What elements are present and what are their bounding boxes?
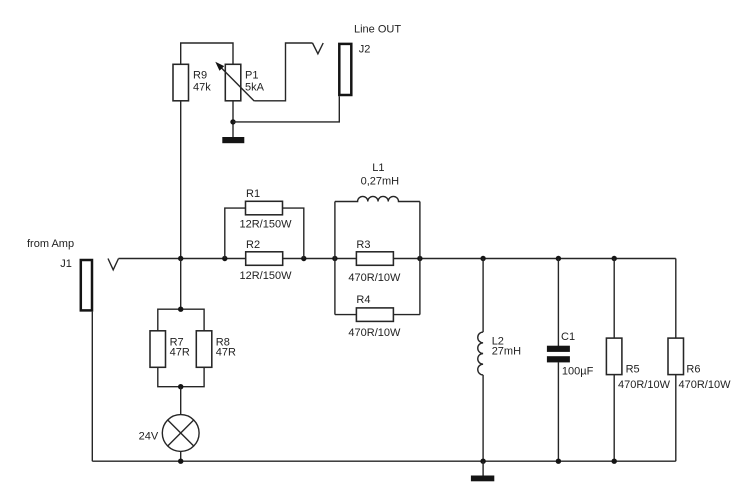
wire: R5 bottom lead — [613, 375, 615, 462]
ground (top) — [222, 137, 244, 143]
wire: C1 bottom lead — [557, 362, 559, 461]
value 47k — [193, 82, 211, 94]
wire: R9 bottom to output rail — [180, 101, 182, 259]
wire: J2 pin to ground node — [233, 96, 339, 122]
wire: R6 top lead — [675, 259, 677, 339]
svg-text:470R/10W: 470R/10W — [618, 379, 671, 391]
value 100µF — [562, 366, 594, 378]
junction: C1 / ground rail — [556, 459, 561, 464]
wire: R4 stub right — [393, 314, 420, 316]
value 12R/150W (R1) — [240, 219, 293, 231]
label Line OUT — [354, 23, 401, 35]
wire: R9/P1 top connection — [181, 43, 233, 65]
svg-text:12R/150W: 12R/150W — [240, 270, 293, 282]
label R5 — [626, 364, 640, 376]
label R8 — [216, 336, 230, 348]
net flag V (wiper) — [313, 43, 324, 54]
wire: R7/R8 bottom bus — [158, 367, 204, 386]
wire: main output rail — [119, 258, 676, 260]
svg-text:R9: R9 — [193, 70, 207, 82]
capacitor C1 — [547, 346, 570, 363]
svg-text:J2: J2 — [359, 43, 371, 55]
junction: R7/R8 bottom — [178, 384, 183, 389]
svg-text:470R/10W: 470R/10W — [679, 379, 732, 391]
wire: P1 wiper lead — [254, 43, 312, 101]
wire: R5 top lead — [613, 259, 615, 339]
svg-text:C1: C1 — [561, 331, 575, 343]
svg-text:47k: 47k — [193, 82, 211, 94]
wire: R1 branch left — [225, 208, 246, 258]
junction: lamp / ground rail — [178, 459, 183, 464]
wire: R7/R8 top bus — [158, 309, 204, 331]
ground (bottom) — [471, 461, 494, 481]
lamp 24V — [162, 415, 199, 462]
resistor R5 — [606, 338, 622, 375]
junction: rail / C1 top — [556, 256, 561, 261]
value 5kA — [245, 82, 265, 94]
label R1 — [246, 188, 260, 200]
junction: rail / R1-R2 right — [301, 256, 306, 261]
wire: bottom ground rail — [92, 460, 676, 462]
svg-text:100µF: 100µF — [562, 366, 594, 378]
potentiometer P1 — [215, 62, 254, 101]
label R2 — [246, 239, 260, 251]
svg-text:5kA: 5kA — [245, 82, 265, 94]
resistor R7 — [150, 331, 166, 368]
junction: rail / L2 top — [480, 256, 485, 261]
value 12R/150W (R2) — [240, 270, 293, 282]
junction: rail / R9 branch — [178, 256, 183, 261]
value 47R (R8) — [216, 346, 236, 358]
junction: R7/R8 top — [178, 307, 183, 312]
resistor R8 — [196, 331, 212, 368]
junction: R5 / ground rail — [612, 459, 617, 464]
resistor R9 — [173, 64, 189, 101]
label R3 — [356, 239, 370, 251]
svg-text:L1: L1 — [372, 162, 384, 174]
svg-text:R4: R4 — [356, 294, 370, 306]
junction: L2 / ground rail — [480, 459, 485, 464]
junction: rail / L1 group right — [417, 256, 422, 261]
label L1 — [372, 162, 384, 174]
junction: P1/J2 ground node — [230, 119, 235, 124]
resistor R3 — [356, 252, 393, 265]
svg-text:R3: R3 — [356, 239, 370, 251]
wire: R4 stub left — [335, 314, 357, 316]
inductor L1 — [335, 196, 420, 201]
wire: P1 bottom to ground node — [232, 101, 234, 137]
connector J1 — [81, 260, 92, 310]
svg-text:24V: 24V — [139, 431, 159, 443]
value 0,27mH — [361, 176, 400, 188]
svg-text:P1: P1 — [245, 70, 258, 82]
junction: rail / R1-R2 left — [222, 256, 227, 261]
resistor R6 — [668, 338, 684, 375]
junction: rail / R5 top — [612, 256, 617, 261]
label L2 — [492, 336, 504, 348]
resistor R4 — [356, 308, 393, 322]
label R9 — [193, 70, 207, 82]
value 24V — [139, 431, 159, 443]
net flag V (rail) — [108, 259, 119, 270]
label R4 — [356, 294, 370, 306]
inductor L2 — [478, 332, 483, 375]
svg-text:470R/10W: 470R/10W — [348, 272, 401, 284]
svg-text:27mH: 27mH — [492, 346, 521, 358]
svg-text:47R: 47R — [216, 346, 236, 358]
wire: L2 top lead — [482, 259, 484, 333]
resistor R1 — [246, 201, 283, 215]
label P1 — [245, 70, 258, 82]
svg-text:Line OUT: Line OUT — [354, 23, 401, 35]
wire: L2 bottom lead — [482, 375, 484, 461]
wire: L1 group left vertical — [334, 202, 336, 315]
svg-text:R2: R2 — [246, 239, 260, 251]
label from Amp — [27, 238, 74, 250]
label J1 — [60, 258, 72, 270]
svg-text:J1: J1 — [60, 258, 72, 270]
value 47R (R7) — [170, 346, 190, 358]
svg-text:47R: 47R — [170, 346, 190, 358]
value 470R/10W (R5) — [618, 379, 671, 391]
wire: C1 top lead — [557, 259, 559, 347]
svg-text:R1: R1 — [246, 188, 260, 200]
wire: R7/R8 to lamp — [180, 387, 182, 415]
connector J2 — [339, 44, 351, 95]
label R6 — [686, 364, 700, 376]
value 27mH — [492, 346, 521, 358]
svg-text:0,27mH: 0,27mH — [361, 176, 400, 188]
label C1 — [561, 331, 575, 343]
wire: L1 group right vertical — [419, 202, 421, 315]
resistor R2 — [246, 252, 283, 265]
value 470R/10W (R4) — [348, 327, 401, 339]
svg-text:470R/10W: 470R/10W — [348, 327, 401, 339]
svg-text:R6: R6 — [686, 364, 700, 376]
junction: rail / L1 group left — [332, 256, 337, 261]
wire: R1 branch right — [283, 208, 304, 258]
svg-text:from Amp: from Amp — [27, 238, 74, 250]
wire: J1 pin down — [91, 312, 93, 462]
value 470R/10W (R6) — [679, 379, 732, 391]
wire: rail down to R7/R8 group — [180, 259, 182, 310]
svg-text:R5: R5 — [626, 364, 640, 376]
wire: R6 bottom lead — [675, 375, 677, 462]
label R7 — [170, 336, 184, 348]
label J2 — [359, 43, 371, 55]
svg-text:12R/150W: 12R/150W — [240, 219, 293, 231]
value 470R/10W (R3) — [348, 272, 401, 284]
